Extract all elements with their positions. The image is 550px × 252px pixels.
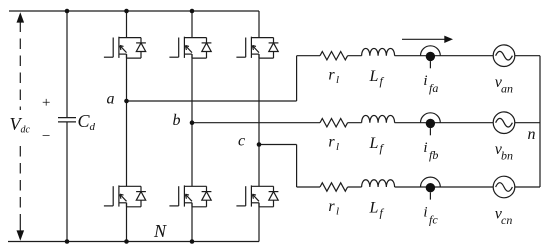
voltage source v_an bbox=[493, 45, 515, 67]
node c dot bbox=[257, 142, 262, 147]
wire node c to phase line bbox=[259, 145, 297, 188]
wire phase b line bbox=[192, 122, 540, 124]
voltage source v_cn bbox=[493, 176, 515, 198]
svg-text:fc: fc bbox=[429, 212, 438, 226]
svg-text:d: d bbox=[90, 121, 96, 133]
svg-text:L: L bbox=[369, 68, 379, 85]
svg-text:f: f bbox=[380, 141, 385, 155]
svg-text:i: i bbox=[423, 205, 427, 221]
transistor Q6 lower phase c with antiparallel diode bbox=[236, 185, 278, 206]
inductor L_f phase c bbox=[362, 180, 395, 187]
wire bottom DC bus bbox=[8, 241, 259, 243]
resistor r_l phase a bbox=[320, 52, 348, 60]
capacitor Cd bbox=[58, 118, 76, 122]
current direction arrow phase a bbox=[402, 36, 453, 43]
current probe i_fa bbox=[421, 46, 441, 69]
wire top DC bus bbox=[9, 10, 259, 12]
transistor Q1 upper phase a with antiparallel diode bbox=[104, 37, 146, 58]
junction dot bottom bus leg1 bbox=[124, 239, 129, 244]
resistor r_l phase b bbox=[320, 119, 348, 127]
svg-text:−: − bbox=[41, 129, 51, 145]
svg-text:r: r bbox=[328, 134, 335, 151]
voltage source v_bn bbox=[493, 112, 515, 134]
wire right neutral bus bbox=[539, 56, 541, 187]
svg-text:a: a bbox=[107, 91, 115, 108]
junction dot top bus leg1 bbox=[124, 9, 129, 14]
wire phase a line bbox=[297, 55, 540, 57]
Vdc measurement arrow bbox=[17, 12, 25, 241]
svg-text:dc: dc bbox=[21, 125, 31, 136]
wire capacitor leg bbox=[66, 11, 68, 242]
current probe i_fb bbox=[421, 113, 441, 136]
transistor Q5 upper phase c with antiparallel diode bbox=[236, 37, 278, 58]
svg-text:N: N bbox=[153, 221, 167, 241]
resistor r_l phase c bbox=[320, 183, 348, 191]
inductor L_f phase b bbox=[362, 115, 395, 122]
svg-text:i: i bbox=[423, 140, 427, 156]
svg-text:n: n bbox=[528, 126, 536, 143]
wire phase leg 1 bbox=[126, 11, 128, 242]
svg-text:f: f bbox=[380, 205, 385, 219]
junction dot top bus leg2 bbox=[190, 9, 195, 14]
inductor L_f phase a bbox=[362, 48, 395, 55]
svg-text:an: an bbox=[501, 82, 513, 96]
svg-text:i: i bbox=[423, 73, 427, 89]
svg-text:b: b bbox=[173, 112, 181, 129]
junction dot top bus capacitor bbox=[65, 9, 70, 14]
wire node a to phase line bbox=[127, 56, 297, 101]
svg-text:bn: bn bbox=[501, 149, 513, 163]
svg-text:fb: fb bbox=[429, 148, 438, 162]
svg-text:L: L bbox=[369, 135, 379, 152]
transistor Q2 lower phase a with antiparallel diode bbox=[104, 185, 146, 206]
junction dot bottom bus capacitor bbox=[65, 239, 70, 244]
svg-text:fa: fa bbox=[429, 81, 438, 95]
wire phase leg 3 bbox=[258, 11, 260, 242]
svg-text:l: l bbox=[336, 205, 339, 217]
wire phase leg 2 bbox=[191, 11, 193, 242]
svg-text:c: c bbox=[238, 133, 245, 150]
transistor Q3 upper phase b with antiparallel diode bbox=[169, 37, 211, 58]
wire phase c line bbox=[297, 186, 540, 188]
node b dot bbox=[190, 120, 195, 125]
node a dot bbox=[124, 99, 129, 104]
svg-text:l: l bbox=[336, 74, 339, 86]
svg-text:r: r bbox=[328, 67, 335, 84]
svg-text:l: l bbox=[336, 141, 339, 153]
transistor Q4 lower phase b with antiparallel diode bbox=[169, 185, 211, 206]
junction dot bottom bus leg2 bbox=[190, 239, 195, 244]
svg-text:f: f bbox=[380, 74, 385, 88]
current probe i_fc bbox=[421, 177, 441, 200]
svg-text:+: + bbox=[41, 95, 51, 111]
svg-text:cn: cn bbox=[501, 213, 512, 227]
svg-text:L: L bbox=[369, 199, 379, 216]
svg-text:r: r bbox=[328, 198, 335, 215]
